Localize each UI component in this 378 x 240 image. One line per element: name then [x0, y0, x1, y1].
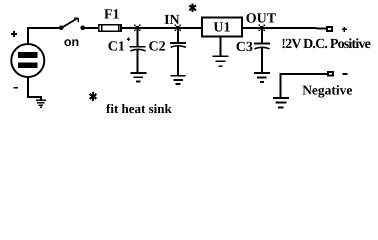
fuse F1 right end cap — [118, 24, 120, 32]
asterisk note mark (IN) — [189, 3, 196, 12]
regulator U1 box — [202, 18, 242, 37]
svg-text:on: on — [64, 35, 79, 49]
ground (C2) — [171, 76, 186, 84]
svg-text:C3: C3 — [236, 40, 253, 55]
- output polarity mark — [342, 73, 347, 75]
node junction C3 — [259, 25, 265, 31]
capacitor C1 + mark — [127, 38, 130, 41]
svg-text:C2: C2 — [149, 39, 166, 54]
capacitor C3 curved plate — [254, 47, 269, 49]
wire battery top lead to rail — [28, 28, 61, 44]
svg-text:C1: C1 — [108, 39, 125, 54]
ground (U1) — [213, 56, 229, 66]
ground (battery) — [36, 100, 46, 107]
wire C2 top lead — [177, 28, 179, 43]
battery + polarity mark — [11, 31, 17, 37]
switch S1 pole dot left — [59, 26, 64, 31]
battery plate top bar — [18, 52, 37, 58]
wire U1 to positive terminal — [243, 27, 327, 29]
wire C3 bottom lead — [261, 48, 263, 73]
battery BT1 circle — [11, 44, 44, 77]
node junction C2 — [175, 25, 181, 31]
wire switch to fuse — [84, 27, 99, 29]
svg-text:OUT: OUT — [246, 12, 277, 27]
svg-text:fit heat sink: fit heat sink — [106, 101, 173, 116]
wire C2 bottom lead — [177, 47, 179, 76]
wire C1 bottom lead — [136, 50, 138, 73]
switch S1 lever — [62, 18, 78, 28]
terminal positive — [327, 27, 332, 31]
switch S1 pole dot right — [80, 26, 85, 31]
switch S1 lever arrowhead — [74, 18, 78, 22]
svg-text:Negative: Negative — [302, 82, 352, 97]
capacitor C3 top plate — [254, 43, 270, 45]
capacitor C2 curved plate — [171, 46, 186, 48]
wire U1 ground pin — [219, 38, 221, 56]
svg-text:U1: U1 — [213, 20, 230, 35]
wire negative rail — [280, 74, 327, 98]
capacitor C2 top plate — [170, 42, 186, 44]
wire C3 top lead — [261, 28, 263, 43]
capacitor C1 top plate — [130, 46, 146, 48]
wire fuse to U1 — [122, 27, 202, 29]
svg-text:!2V D.C. Positive: !2V D.C. Positive — [281, 37, 370, 52]
ground (C3) — [254, 73, 270, 82]
svg-text:F1: F1 — [104, 8, 120, 23]
asterisk note mark (heat sink) — [90, 92, 97, 101]
+ output polarity mark — [342, 27, 347, 32]
wire C1 top lead — [136, 28, 138, 47]
ground (C1) — [130, 73, 146, 82]
svg-text:IN: IN — [164, 13, 180, 28]
ground (negative rail) — [273, 98, 289, 108]
capacitor C1 curved plate — [130, 49, 145, 51]
fuse F1 body — [99, 25, 121, 32]
battery - polarity mark — [14, 87, 18, 89]
node junction C1 — [134, 25, 140, 31]
wire battery bottom lead — [28, 78, 41, 100]
terminal negative — [328, 72, 333, 76]
battery plate bottom bar — [18, 62, 37, 68]
fuse F1 left end cap — [101, 24, 103, 32]
